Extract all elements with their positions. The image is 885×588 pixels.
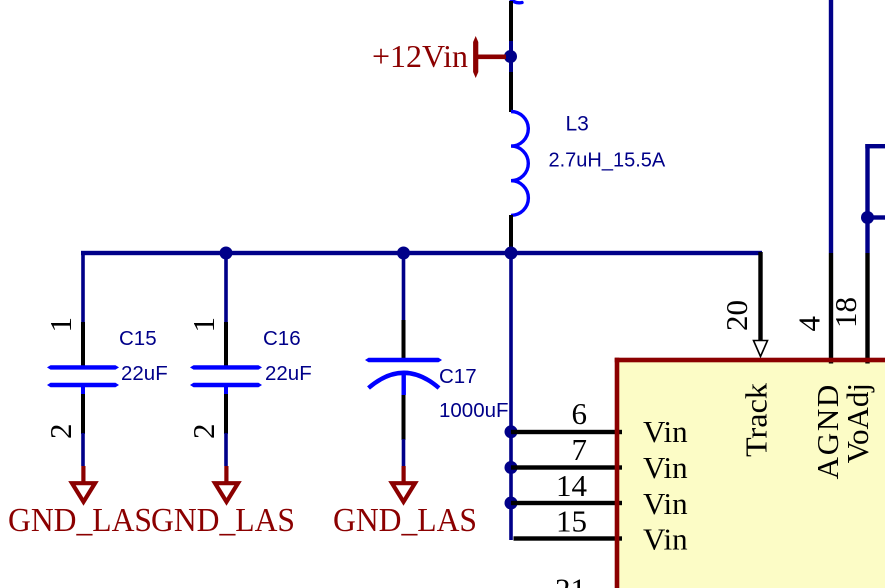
wire C15 vertical drop: [81, 252, 85, 322]
pin of L3 (bottom, black): [509, 215, 513, 255]
pin of L3 (top, black): [509, 72, 513, 112]
wire C16 vertical drop: [224, 253, 228, 322]
svg-text:L3: L3: [566, 113, 589, 136]
svg-text:14: 14: [556, 468, 588, 503]
wire right vertical to pin 4: [829, 0, 833, 253]
pin 4 AGND wire (black): [829, 253, 833, 364]
IC border left: [615, 358, 620, 588]
pin 14 stub: [511, 501, 622, 505]
svg-text:GND_LAS: GND_LAS: [333, 502, 477, 539]
C17 blue stub: [402, 374, 406, 395]
wire C17 vertical drop: [402, 253, 406, 320]
pin 2 of C16: [224, 394, 228, 434]
svg-text:Vin: Vin: [643, 450, 688, 485]
C16 plates: [190, 365, 262, 369]
pin 2 of C17: [402, 395, 406, 440]
svg-text:22uF: 22uF: [265, 362, 312, 385]
svg-text:Vin: Vin: [643, 414, 688, 449]
capacitor C16: [186, 317, 312, 466]
node junction dot right branch: [861, 211, 874, 224]
svg-text:1: 1: [186, 317, 221, 333]
svg-text:GND_LAS: GND_LAS: [151, 502, 295, 539]
inductor (cut off at top edge) arc remnant: [510, 0, 522, 3]
pin 18 VoAdj wire (black): [865, 253, 869, 364]
node +12Vin junction dot: [504, 50, 517, 63]
svg-text:2: 2: [43, 424, 78, 440]
capacitor C15: [43, 317, 168, 466]
pin 1 of C16: [224, 322, 228, 367]
node junction dot C16 tap: [220, 247, 233, 260]
svg-text:1: 1: [43, 317, 78, 333]
wire right vertical to pin 18: [865, 144, 869, 253]
node junction dot pin7: [505, 461, 518, 474]
svg-text:C15: C15: [119, 327, 157, 350]
svg-text:VoAdj: VoAdj: [840, 383, 875, 463]
pin 20 input triangle: [754, 341, 768, 357]
wire black top segment: [509, 1, 513, 42]
pin 2 of C15: [81, 394, 85, 434]
wire top right horizontal entering from edge: [865, 144, 885, 148]
svg-text:C17: C17: [439, 365, 477, 388]
svg-text:20: 20: [719, 300, 754, 331]
svg-text:2.7uH_15.5A: 2.7uH_15.5A: [549, 150, 666, 172]
svg-text:Track: Track: [739, 382, 774, 457]
svg-text:GND_LAS: GND_LAS: [8, 502, 152, 539]
inductor L3 coil arcs: [511, 112, 528, 216]
capacitor C17 (polarized): [365, 320, 509, 466]
node junction dot pin14: [505, 497, 518, 510]
wire vertical to Vin pins: [509, 253, 513, 540]
pin 1 of C17: [402, 320, 406, 362]
wire navy at +12Vin junction: [509, 41, 513, 73]
power port +12Vin bar symbol: [473, 36, 478, 78]
ground GND_LAS symbol for C17: [392, 466, 415, 502]
svg-text:18: 18: [828, 297, 863, 328]
svg-text:1000uF: 1000uF: [439, 399, 509, 422]
svg-text:22uF: 22uF: [121, 362, 168, 385]
svg-text:C16: C16: [263, 327, 301, 350]
IC U? body fill: [617, 360, 885, 588]
node junction dot pin6: [505, 425, 518, 438]
C17 flat plate: [365, 358, 442, 362]
C17 curved plate: [369, 373, 440, 388]
ground GND_LAS symbol for C15: [72, 466, 95, 502]
svg-text:Vin: Vin: [643, 486, 688, 521]
node junction dot C17 tap: [397, 247, 410, 260]
svg-text:2: 2: [186, 424, 221, 440]
pin 7 stub: [511, 465, 622, 469]
pin 6 stub: [511, 430, 622, 434]
svg-text:Vin: Vin: [643, 522, 688, 557]
wire to ground: [402, 439, 406, 466]
wire to ground: [81, 433, 85, 466]
svg-text:4: 4: [792, 316, 827, 332]
svg-text:+12Vin: +12Vin: [372, 38, 468, 74]
ground GND_LAS symbol for C16: [215, 466, 238, 502]
pin 1 of C15: [81, 322, 85, 367]
IC border top: [615, 358, 885, 363]
svg-text:21: 21: [555, 572, 586, 588]
svg-text:15: 15: [556, 504, 587, 539]
pin 20 Track wire (black): [758, 252, 762, 340]
svg-text:7: 7: [572, 432, 588, 467]
node junction dot L3 bus: [505, 247, 518, 260]
wire main horizontal bus: [81, 251, 762, 255]
wire branch to right edge: [865, 215, 885, 219]
pin 15 stub: [514, 536, 623, 540]
svg-text:6: 6: [572, 396, 588, 431]
C15 plates: [47, 365, 119, 369]
wire to ground: [224, 433, 228, 466]
